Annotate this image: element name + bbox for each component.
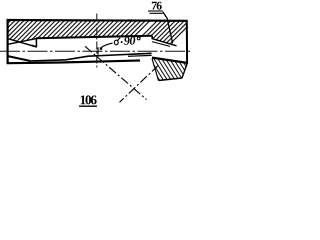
dark knot at step base [32,44,37,47]
exit cone second surface [152,42,170,47]
angle value text 90 [124,36,136,45]
part outline: top edge [7,19,188,81]
106 underline [79,105,97,107]
bore bottom wall second line [128,54,152,57]
section hatching of upper die wall [0,10,204,55]
horizontal centerline (bore axis) [0,14,192,103]
bore cavity top wall [36,36,152,39]
cavity corner stub [151,36,153,39]
76 underline upper [148,10,163,12]
45-degree section trace (down-right) [85,46,147,99]
entry cone upper line (rising) [8,39,37,45]
angle leader arc [100,43,113,48]
degree circle [137,37,140,40]
prime tick after degree sign [140,35,142,37]
exit channel bottom line (descending to right edge) [152,58,187,63]
45-degree section trace (down-left) [120,65,159,102]
section hatching of lower-right angled boss [138,52,207,87]
multiplication dot [121,41,123,43]
bore entry step (vertical shoulder) [35,38,37,48]
76 leader arrowhead [171,41,173,44]
dimension text 106 [79,95,97,106]
angled boss bottom edge [159,78,183,81]
part outline: bottom edge [7,61,141,64]
76 leader line [163,12,173,43]
dimension text 76 [148,2,173,44]
vertical centerline [96,14,98,68]
lower entry taper [8,56,30,61]
part outline: left edge [6,19,8,64]
entry cone lower line (descending) [8,39,37,47]
angled boss left edge [152,59,159,81]
angle label: delta glyph loop [98,35,142,54]
angled boss right edge [182,64,187,79]
angle leader arrowhead [99,48,103,51]
76 underline lower [150,12,163,14]
angle vertex stub [97,47,99,54]
exit cone upper surface [152,39,177,46]
bore bottom wall [29,53,152,61]
part outline: right edge [186,20,188,64]
delta glyph tail [118,38,121,41]
